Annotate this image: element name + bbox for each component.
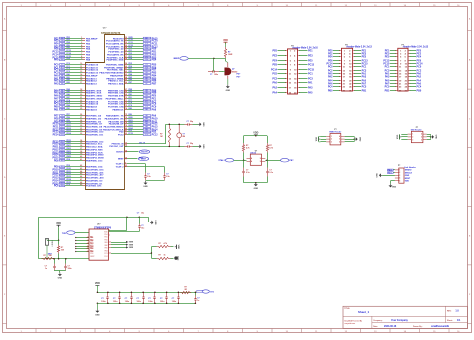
svg-text:R?: R?	[228, 52, 230, 54]
svg-text:S: S	[260, 158, 261, 160]
svg-text:6: 6	[81, 50, 82, 52]
svg-text:PC10: PC10	[129, 39, 133, 41]
svg-text:EasyEDA Powered By: EasyEDA Powered By	[345, 320, 363, 323]
svg-text:GND: GND	[435, 135, 437, 140]
svg-text:PD0: PD0	[145, 48, 148, 50]
svg-text:PD13: PD13	[67, 176, 71, 178]
svg-text:PC2: PC2	[272, 77, 277, 80]
svg-text:PE14: PE14	[61, 134, 64, 136]
svg-text:PC6: PC6	[90, 245, 93, 247]
svg-text:PE0: PE0	[272, 49, 277, 52]
svg-text:66: 66	[125, 82, 127, 84]
svg-text:PD7: PD7	[129, 68, 132, 70]
svg-text:3: 3	[81, 42, 82, 44]
svg-text:PC10/UART4_TX: PC10/UART4_TX	[106, 39, 124, 42]
svg-text:5: 5	[87, 245, 88, 247]
svg-text:PA6: PA6	[67, 93, 70, 96]
svg-text:PC1: PC1	[308, 72, 313, 75]
svg-text:79: 79	[125, 125, 127, 127]
svg-text:1u: 1u	[197, 300, 199, 302]
svg-text:PE0/TIM4_ETR: PE0/TIM4_ETR	[108, 94, 124, 97]
svg-text:PB15: PB15	[67, 156, 71, 158]
svg-text:VDD: VDD	[223, 40, 228, 42]
svg-text:R?: R?	[159, 254, 161, 256]
svg-text:C?: C?	[210, 74, 212, 76]
svg-text:PE4: PE4	[328, 55, 333, 58]
svg-text:GND: GND	[202, 122, 204, 127]
svg-text:PB4/NJTRST: PB4/NJTRST	[110, 74, 124, 77]
svg-text:PE0: PE0	[145, 95, 148, 97]
svg-text:74: 74	[125, 107, 127, 110]
svg-text:PB11/I2C2_SDA: PB11/I2C2_SDA	[86, 145, 103, 148]
svg-text:PB14: PB14	[67, 152, 71, 155]
svg-text:PD9: PD9	[67, 165, 70, 167]
svg-text:PC5: PC5	[362, 85, 367, 88]
svg-text:36: 36	[80, 145, 82, 147]
svg-text:Company:: Company:	[373, 320, 383, 322]
svg-text:PC0: PC0	[328, 65, 333, 68]
svg-text:PB11: PB11	[67, 145, 71, 147]
svg-text:PA9/USART1_TX: PA9/USART1_TX	[106, 114, 124, 117]
svg-text:PA3: PA3	[54, 82, 59, 85]
svg-text:24C02: 24C02	[250, 151, 256, 154]
svg-text:VDD: VDD	[177, 245, 179, 250]
svg-text:GND: GND	[143, 186, 148, 188]
svg-text:PC5: PC5	[67, 102, 70, 104]
svg-text:13: 13	[80, 71, 82, 73]
svg-text:GND: GND	[202, 144, 204, 149]
svg-text:PA3: PA3	[362, 75, 367, 78]
svg-text:PD7: PD7	[145, 69, 148, 71]
svg-text:PC13: PC13	[67, 50, 71, 52]
svg-text:BOOT0: BOOT0	[141, 152, 147, 154]
svg-text:PA12: PA12	[129, 121, 133, 124]
svg-text:94: 94	[125, 150, 127, 153]
svg-text:PC15: PC15	[308, 68, 315, 71]
svg-text:PC6: PC6	[61, 185, 64, 187]
svg-text:45: 45	[80, 172, 82, 175]
svg-text:PE6: PE6	[67, 47, 70, 49]
svg-text:PB12: PB12	[67, 148, 71, 150]
svg-text:PE7/FSMC_D4: PE7/FSMC_D4	[86, 114, 102, 117]
svg-text:PC9/TIM3_CH4: PC9/TIM3_CH4	[108, 105, 124, 108]
svg-text:PB10/I2C2_SCL: PB10/I2C2_SCL	[86, 143, 103, 145]
svg-text:43: 43	[80, 167, 82, 170]
svg-text:PD5: PD5	[129, 63, 132, 65]
svg-text:PC9: PC9	[145, 106, 148, 108]
svg-text:30: 30	[80, 125, 82, 127]
svg-text:PE7: PE7	[67, 114, 70, 116]
svg-text:PB9/TIM4_CH4: PB9/TIM4_CH4	[108, 91, 124, 94]
svg-text:PC10: PC10	[145, 40, 149, 42]
svg-text:STM8S003F3P6: STM8S003F3P6	[94, 227, 112, 229]
svg-text:PC0: PC0	[67, 63, 70, 65]
svg-text:PB3: PB3	[129, 71, 132, 73]
svg-text:PC13: PC13	[61, 51, 65, 53]
svg-text:33: 33	[80, 133, 82, 135]
svg-text:GND: GND	[58, 278, 63, 280]
svg-text:70: 70	[125, 97, 127, 99]
svg-text:Your Company: Your Company	[391, 319, 408, 322]
svg-text:47: 47	[80, 178, 82, 181]
svg-text:PB7: PB7	[129, 82, 132, 84]
svg-text:PE2: PE2	[272, 54, 277, 57]
svg-text:73: 73	[125, 105, 127, 107]
svg-text:PA8: PA8	[129, 107, 132, 110]
svg-text:SWCLK: SWCLK	[405, 172, 413, 174]
svg-text:PC0: PC0	[272, 72, 277, 75]
svg-text:PD9: PD9	[61, 166, 64, 168]
svg-text:PB1/ADC9: PB1/ADC9	[86, 108, 98, 111]
svg-text:10u: 10u	[141, 228, 144, 230]
svg-text:51: 51	[125, 39, 127, 41]
svg-text:NRST: NRST	[405, 178, 411, 180]
svg-text:54: 54	[125, 46, 127, 49]
svg-text:PE5: PE5	[61, 46, 64, 48]
svg-text:PB12: PB12	[61, 149, 64, 151]
svg-text:2024-06-16: 2024-06-16	[384, 325, 397, 328]
svg-text:PC3: PC3	[104, 253, 107, 255]
svg-text:GND: GND	[95, 314, 100, 316]
svg-text:7: 7	[87, 250, 88, 252]
svg-text:PE6: PE6	[61, 48, 64, 50]
svg-text:PC12: PC12	[129, 133, 133, 135]
svg-text:41: 41	[80, 158, 82, 161]
svg-text:PA2: PA2	[417, 75, 422, 78]
svg-text:PE8: PE8	[61, 118, 64, 120]
svg-text:R?: R?	[159, 243, 161, 245]
svg-text:PD1: PD1	[129, 50, 132, 52]
svg-text:SWIM: SWIM	[129, 242, 134, 244]
svg-text:59: 59	[125, 63, 127, 65]
svg-text:PE1/FSMC_NBL1: PE1/FSMC_NBL1	[106, 98, 125, 100]
svg-text:SWDIO: SWDIO	[405, 170, 412, 172]
svg-text:63: 63	[125, 74, 127, 76]
svg-text:BEEP: BEEP	[174, 58, 180, 60]
svg-text:PD11: PD11	[61, 172, 64, 174]
svg-text:PE0: PE0	[129, 94, 132, 96]
svg-text:PD9/FSMC_D14: PD9/FSMC_D14	[86, 165, 103, 168]
svg-text:PC14: PC14	[67, 52, 71, 55]
svg-text:PD4: PD4	[104, 234, 107, 236]
svg-text:PA9: PA9	[129, 113, 132, 116]
svg-text:PB7: PB7	[152, 82, 157, 85]
svg-text:PD10: PD10	[61, 169, 65, 171]
svg-text:SWIM: SWIM	[129, 247, 134, 249]
svg-text:PD14/FSMC_D0: PD14/FSMC_D0	[86, 179, 103, 182]
svg-text:PC1: PC1	[362, 65, 367, 68]
svg-text:PH0: PH0	[61, 59, 64, 61]
svg-text:72: 72	[125, 102, 127, 104]
svg-text:24: 24	[80, 104, 82, 107]
svg-text:PB9: PB9	[145, 92, 148, 94]
svg-text:SWD Header: SWD Header	[329, 132, 341, 134]
svg-text:R?: R?	[44, 255, 46, 257]
svg-text:PD13: PD13	[61, 177, 65, 179]
svg-text:PE4: PE4	[61, 43, 64, 45]
svg-text:62: 62	[125, 71, 127, 73]
svg-text:PC5: PC5	[90, 242, 93, 244]
svg-text:17: 17	[80, 82, 82, 84]
svg-text:2.2u: 2.2u	[166, 176, 170, 178]
svg-text:PC4: PC4	[104, 256, 107, 258]
svg-text:PA3/ADC3: PA3/ADC3	[86, 82, 97, 85]
svg-text:VDD: VDD	[253, 131, 258, 134]
svg-text:PA6/SPI1_MISO: PA6/SPI1_MISO	[86, 94, 103, 97]
svg-text:PE4: PE4	[417, 55, 422, 58]
svg-text:2: 2	[87, 236, 88, 238]
svg-text:46: 46	[80, 175, 82, 178]
svg-text:PH0: PH0	[54, 58, 59, 61]
svg-text:PE7: PE7	[61, 115, 64, 117]
svg-text:PC14: PC14	[271, 68, 278, 71]
svg-text:PC1: PC1	[61, 67, 64, 69]
svg-text:PC3: PC3	[67, 71, 70, 73]
svg-text:PB0: PB0	[67, 105, 70, 107]
svg-text:PA12/USB_DP: PA12/USB_DP	[109, 122, 124, 125]
svg-text:PA7/SPI1_MOSI: PA7/SPI1_MOSI	[86, 97, 103, 100]
svg-text:35: 35	[80, 142, 82, 144]
svg-text:PD6: PD6	[104, 239, 107, 241]
svg-text:Header-Male-2.54_2x10: Header-Male-2.54_2x10	[293, 46, 319, 49]
svg-text:PB5: PB5	[90, 239, 93, 241]
svg-text:82: 82	[125, 133, 127, 135]
svg-text:PD5: PD5	[145, 64, 148, 66]
svg-text:PA5: PA5	[67, 90, 70, 93]
svg-text:PC12: PC12	[145, 46, 149, 48]
svg-text:PA2: PA2	[328, 75, 333, 78]
svg-text:RESET: RESET	[50, 241, 52, 248]
svg-text:25: 25	[125, 158, 127, 160]
svg-text:C?: C?	[137, 213, 139, 215]
svg-text:PD2: PD2	[129, 130, 132, 132]
svg-text:PB7/I2C1_SDA: PB7/I2C1_SDA	[108, 82, 124, 85]
svg-text:GND: GND	[226, 90, 231, 92]
svg-text:29: 29	[80, 122, 82, 124]
svg-text:PB4: PB4	[145, 75, 148, 77]
svg-text:PA8: PA8	[152, 108, 157, 111]
svg-text:PE14: PE14	[67, 132, 71, 135]
svg-text:PA2: PA2	[67, 78, 70, 81]
svg-text:1u: 1u	[45, 268, 47, 270]
svg-text:PB4: PB4	[129, 73, 132, 76]
svg-text:PD12: PD12	[67, 173, 71, 175]
svg-text:BOOT0: BOOT0	[116, 152, 124, 154]
svg-text:PH0: PH0	[67, 58, 70, 60]
svg-text:PB14: PB14	[61, 154, 64, 156]
svg-text:PA0: PA0	[273, 81, 278, 84]
svg-text:2: 2	[81, 39, 82, 41]
svg-text:VDD: VDD	[405, 181, 410, 183]
svg-text:PA8/MCO1: PA8/MCO1	[112, 108, 124, 111]
svg-text:PB6: PB6	[129, 79, 132, 81]
svg-text:VCAP_1: VCAP_1	[116, 163, 125, 166]
svg-text:PD7/FSMC_NE1: PD7/FSMC_NE1	[107, 69, 124, 71]
svg-text:PD0: PD0	[129, 47, 132, 49]
svg-text:PC9: PC9	[129, 105, 132, 107]
svg-text:PC4: PC4	[328, 85, 333, 88]
svg-text:81: 81	[125, 130, 127, 132]
svg-text:25: 25	[80, 108, 82, 110]
svg-text:PD1: PD1	[145, 51, 148, 53]
svg-text:PE11/FSMC_D8: PE11/FSMC_D8	[86, 126, 103, 128]
svg-text:PE1: PE1	[129, 97, 132, 99]
svg-text:PB?: PB?	[289, 160, 294, 162]
svg-text:PE13/FSMC_D10: PE13/FSMC_D10	[86, 131, 104, 133]
svg-text:PE3: PE3	[61, 40, 64, 42]
svg-text:PA3: PA3	[385, 75, 390, 78]
svg-text:PC8/TIM3_CH3: PC8/TIM3_CH3	[108, 103, 124, 105]
svg-text:100n: 100n	[68, 268, 72, 270]
svg-text:PC2: PC2	[61, 69, 64, 71]
svg-text:PD2/UART5_RX: PD2/UART5_RX	[107, 53, 124, 56]
svg-text:PE5: PE5	[385, 55, 390, 58]
svg-text:PB5: PB5	[104, 248, 107, 250]
svg-text:PC5: PC5	[385, 85, 390, 88]
svg-text:PA3: PA3	[308, 86, 313, 89]
svg-text:PA7: PA7	[67, 96, 70, 99]
svg-text:PC11: PC11	[129, 42, 133, 44]
svg-text:12: 12	[80, 68, 82, 70]
svg-text:PE10: PE10	[61, 123, 64, 125]
svg-text:PA1: PA1	[308, 81, 313, 84]
svg-text:PD4: PD4	[145, 59, 148, 61]
svg-text:PD13/FSMC_A18: PD13/FSMC_A18	[86, 176, 104, 179]
svg-text:16: 16	[80, 79, 82, 81]
svg-text:C?: C?	[187, 143, 189, 145]
svg-text:26: 26	[80, 114, 82, 116]
svg-text:PC3: PC3	[308, 77, 313, 80]
svg-text:4.7k: 4.7k	[164, 242, 168, 245]
svg-text:PC0/ADC10: PC0/ADC10	[86, 63, 99, 66]
svg-text:PB1: PB1	[61, 109, 64, 111]
svg-text:PE15: PE15	[61, 141, 64, 143]
svg-text:10: 10	[80, 63, 82, 65]
svg-text:NRST: NRST	[139, 157, 143, 159]
svg-text:PD10: PD10	[67, 168, 71, 170]
svg-text:PE8/FSMC_D5: PE8/FSMC_D5	[86, 118, 102, 120]
svg-text:PD3: PD3	[90, 253, 93, 255]
svg-text:GND: GND	[405, 175, 410, 177]
svg-text:PD8: PD8	[61, 160, 64, 162]
svg-text:42: 42	[80, 164, 82, 167]
svg-text:2.2u: 2.2u	[147, 176, 151, 178]
svg-text:PA10: PA10	[129, 116, 133, 119]
svg-text:PD2: PD2	[145, 54, 148, 56]
svg-text:100R: 100R	[228, 54, 233, 56]
svg-text:PD2: PD2	[129, 53, 132, 55]
svg-text:REV:: REV:	[447, 310, 452, 312]
svg-text:0.1u: 0.1u	[269, 172, 273, 174]
svg-text:PC5/ADC15: PC5/ADC15	[86, 102, 99, 105]
svg-text:PE5: PE5	[308, 59, 313, 62]
svg-text:Link Header: Link Header	[404, 167, 416, 169]
svg-text:Header-Male-2.54_2x13: Header-Male-2.54_2x13	[347, 46, 373, 49]
svg-text:4.7k: 4.7k	[269, 147, 273, 150]
svg-text:76: 76	[125, 117, 127, 119]
svg-text:PB4: PB4	[104, 250, 107, 252]
svg-text:PC3/ADC13: PC3/ADC13	[86, 71, 99, 74]
svg-text:3: 3	[87, 239, 88, 241]
svg-text:PD2: PD2	[90, 250, 93, 252]
svg-text:55: 55	[125, 50, 127, 52]
svg-text:PC0: PC0	[61, 64, 64, 66]
svg-text:PB9: PB9	[129, 91, 132, 93]
svg-text:Q?: Q?	[232, 69, 235, 71]
svg-text:TITLE:: TITLE:	[344, 308, 350, 310]
svg-text:27: 27	[80, 117, 82, 119]
svg-text:6: 6	[125, 163, 126, 165]
svg-text:PB1: PB1	[54, 108, 59, 111]
svg-text:56: 56	[125, 53, 127, 55]
svg-text:PC14: PC14	[61, 54, 65, 56]
svg-text:C?: C?	[269, 170, 271, 172]
svg-text:21: 21	[80, 97, 82, 99]
svg-text:37: 37	[80, 148, 82, 150]
svg-text:Sheet_1: Sheet_1	[358, 310, 369, 314]
svg-text:PD5/FSMC_NWE: PD5/FSMC_NWE	[106, 64, 124, 66]
svg-text:PC6/TIM3_CH1: PC6/TIM3_CH1	[86, 185, 102, 187]
svg-text:PC2/ADC12: PC2/ADC12	[86, 68, 99, 71]
svg-text:PC6: PC6	[54, 184, 59, 187]
svg-text:PE8: PE8	[67, 117, 70, 119]
svg-text:PE10/FSMC_D7: PE10/FSMC_D7	[86, 123, 103, 125]
svg-text:GND: GND	[154, 220, 156, 225]
svg-text:PE14: PE14	[53, 133, 60, 136]
svg-text:PB0: PB0	[61, 106, 64, 108]
svg-text:PE14/FSMC_D11: PE14/FSMC_D11	[86, 133, 104, 136]
svg-text:PC12: PC12	[152, 133, 159, 136]
svg-text:PB0/ADC8: PB0/ADC8	[86, 105, 98, 108]
svg-text:PC11/UART4_RX: PC11/UART4_RX	[106, 42, 124, 45]
svg-text:NRST: NRST	[90, 256, 94, 258]
svg-text:PE6: PE6	[272, 63, 277, 66]
svg-text:PE1: PE1	[308, 49, 313, 52]
svg-text:0.1u: 0.1u	[246, 172, 250, 174]
svg-text:PE13: PE13	[61, 131, 64, 133]
svg-text:SWIM: SWIM	[129, 244, 134, 246]
svg-text:PB6: PB6	[145, 80, 148, 82]
svg-text:C?: C?	[187, 121, 189, 123]
svg-text:PB7: PB7	[145, 83, 148, 85]
svg-text:68: 68	[125, 91, 127, 93]
svg-text:6: 6	[87, 247, 88, 249]
svg-text:easyeda.com: easyeda.com	[345, 323, 356, 325]
svg-text:Drawn By:: Drawn By:	[413, 326, 423, 328]
svg-text:PD8: PD8	[67, 159, 70, 161]
svg-text:PE4: PE4	[272, 59, 277, 62]
svg-text:65: 65	[125, 79, 127, 81]
svg-text:PD2: PD2	[145, 131, 148, 133]
svg-text:TXD: TXD	[62, 233, 67, 235]
svg-text:PA5/SPI1_SCK: PA5/SPI1_SCK	[86, 91, 102, 94]
svg-text:PC13: PC13	[308, 63, 315, 66]
svg-text:PA3: PA3	[67, 81, 70, 84]
svg-text:GND: GND	[254, 188, 259, 190]
svg-text:PB15/SPI2_MOSI: PB15/SPI2_MOSI	[86, 157, 104, 159]
svg-text:47: 47	[125, 164, 127, 167]
svg-text:PC1: PC1	[385, 65, 390, 68]
svg-text:PA2: PA2	[273, 86, 278, 89]
svg-text:PB10: PB10	[61, 143, 64, 145]
svg-text:20: 20	[80, 94, 82, 96]
svg-text:PB6/I2C1_SCL: PB6/I2C1_SCL	[108, 80, 124, 82]
svg-text:23: 23	[80, 102, 82, 104]
svg-text:PD4: PD4	[129, 57, 132, 60]
svg-text:39: 39	[80, 153, 82, 155]
svg-text:PE1: PE1	[145, 98, 148, 100]
svg-text:C?: C?	[246, 170, 248, 172]
